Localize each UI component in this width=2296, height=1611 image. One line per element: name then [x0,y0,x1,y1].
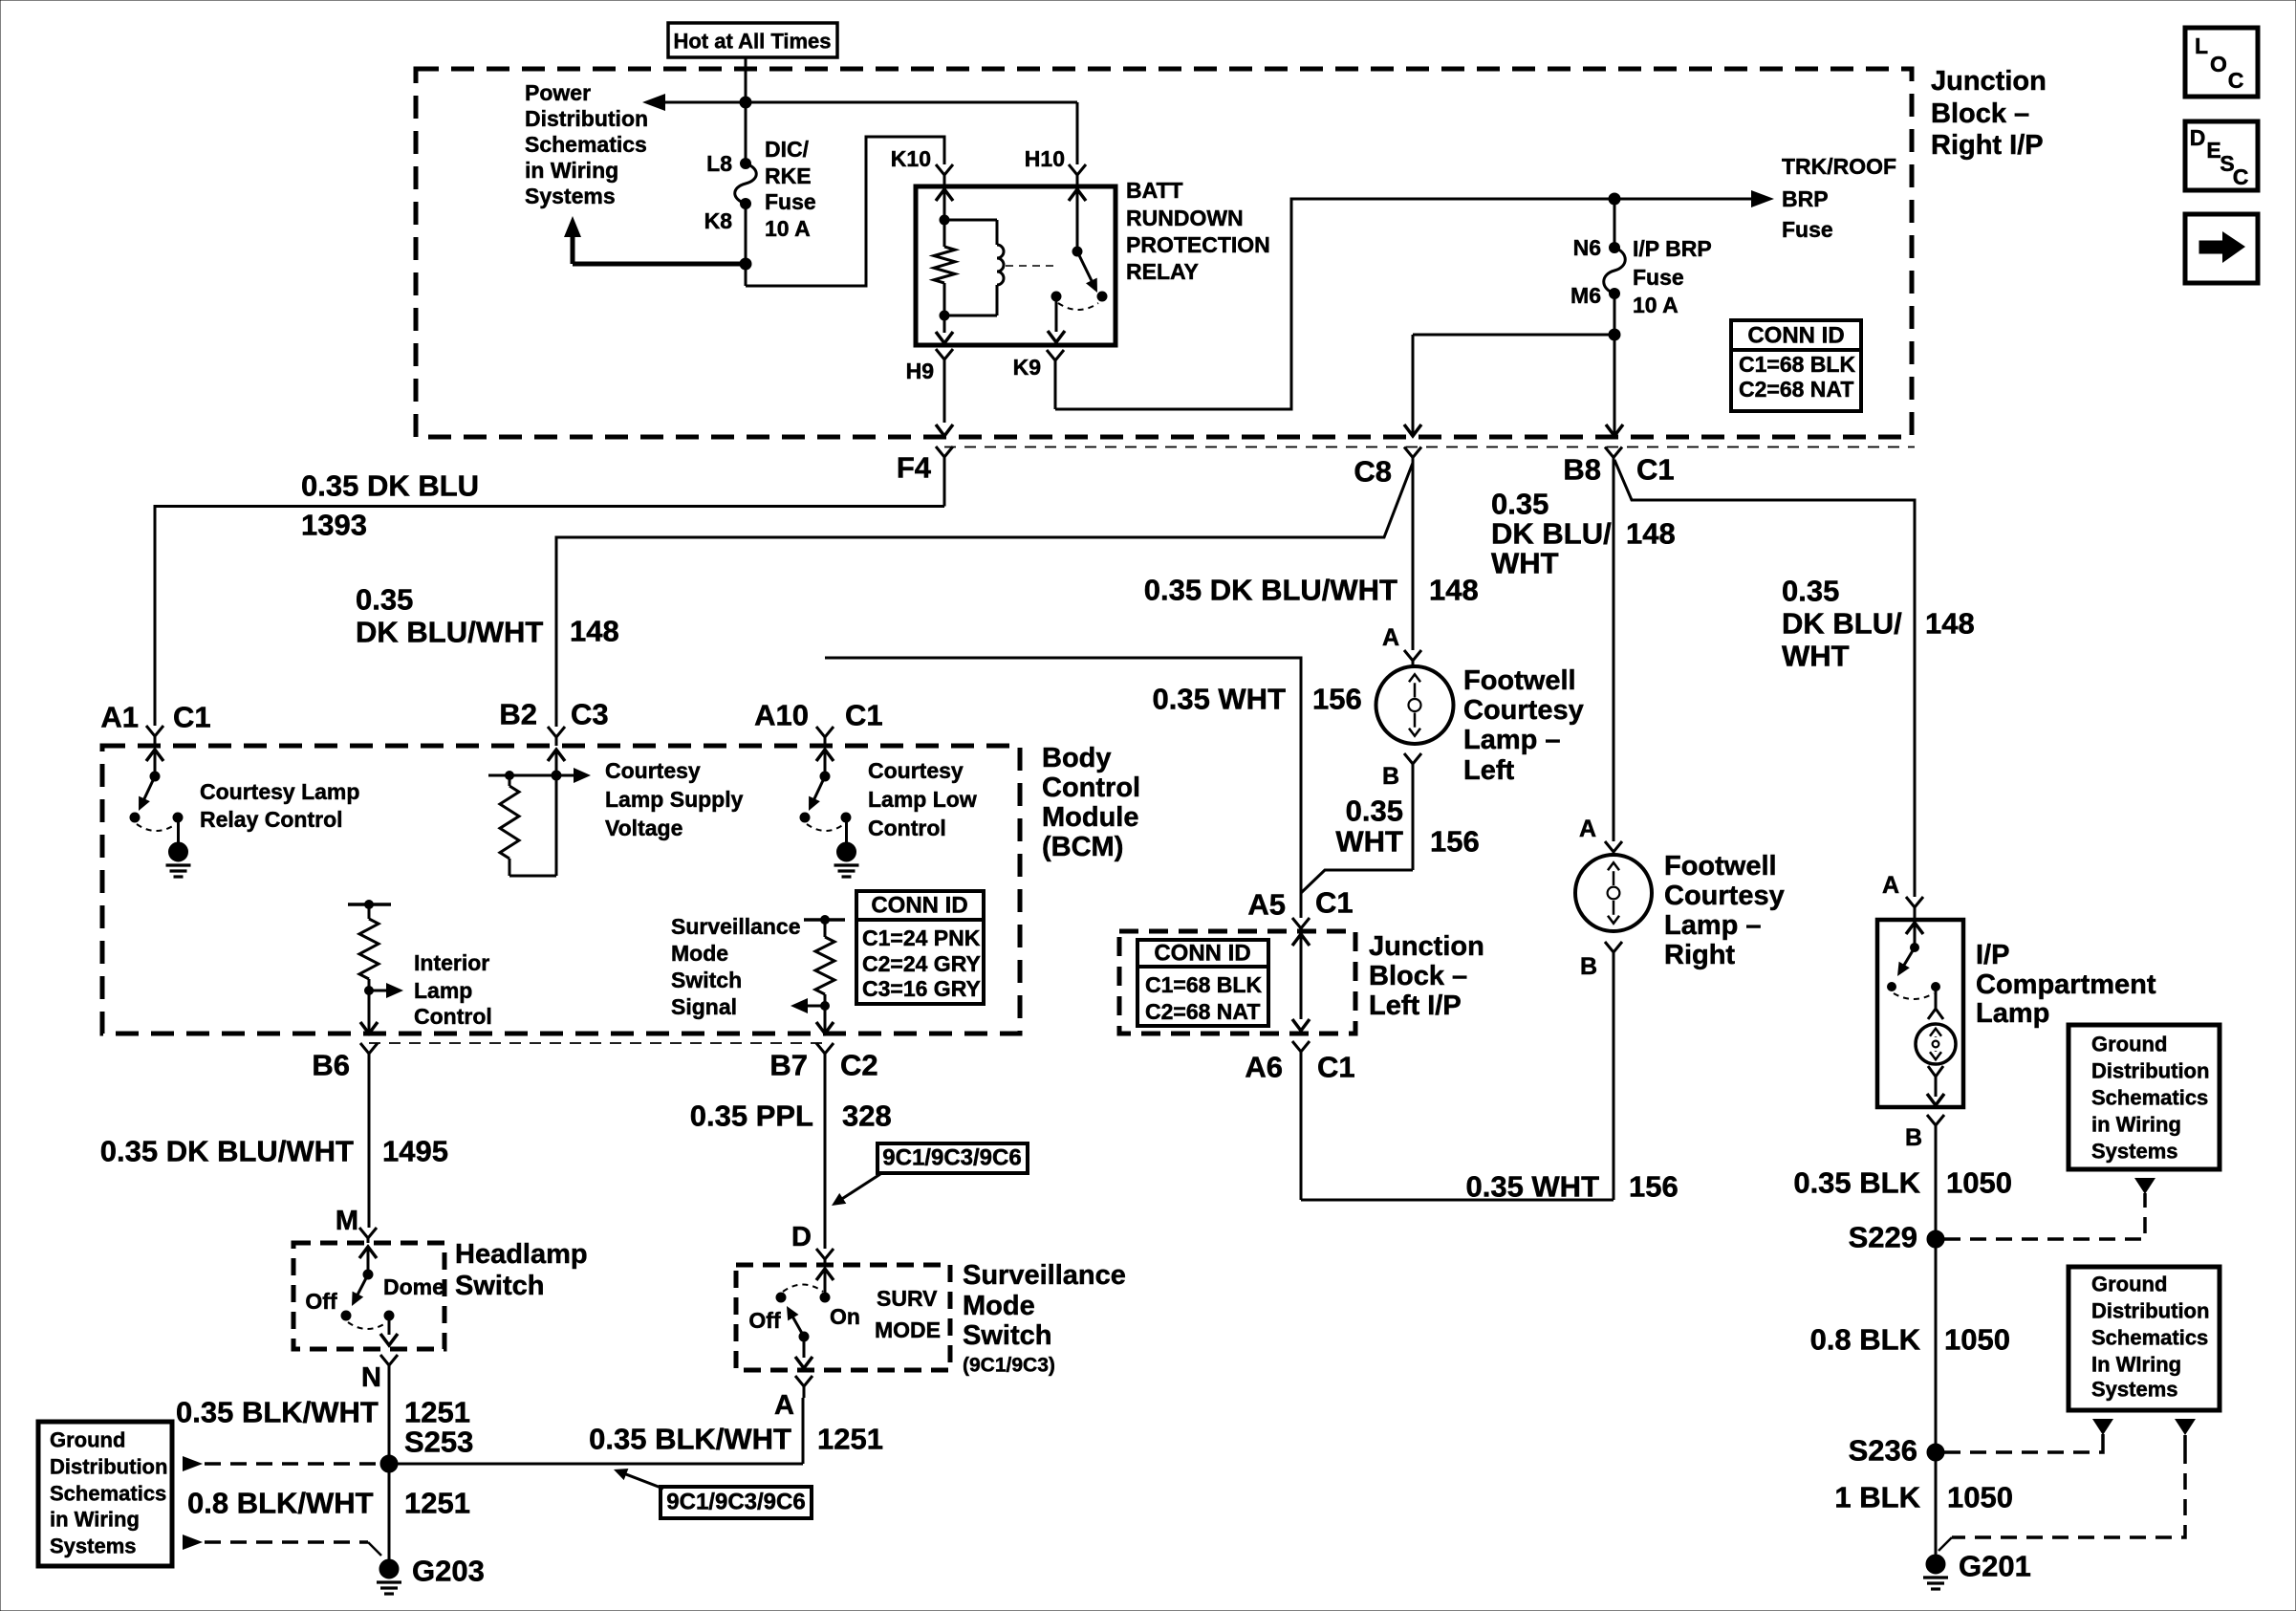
node: I/P switch contact left [1888,983,1896,991]
svg-text:0.35 DK BLU/WHT: 0.35 DK BLU/WHT [1144,574,1397,607]
svg-text:DK BLU/: DK BLU/ [1782,607,1902,641]
ground inside BCM at A1 [177,817,180,852]
svg-text:Headlamp: Headlamp [455,1239,588,1270]
surveillance dashed arc [783,1285,823,1293]
svg-text:Lamp –: Lamp – [1463,725,1561,755]
relay switch output arrow to K9 [1055,296,1058,332]
svg-text:DK BLU/WHT: DK BLU/WHT [356,616,543,649]
svg-text:Surveillance: Surveillance [671,914,801,939]
node: relay switch open contact [1097,292,1107,301]
svg-text:MODE: MODE [875,1317,941,1342]
svg-text:0.35 WHT: 0.35 WHT [1152,683,1286,716]
I/P lamp switch input arrow [1906,923,1923,934]
svg-text:B7: B7 [769,1049,808,1082]
svg-text:C2=68 NAT: C2=68 NAT [1145,999,1260,1024]
connector chevron N [380,1355,398,1365]
svg-text:Ground: Ground [2091,1273,2167,1296]
dashed lead S229 to ground distribution [1944,1207,2145,1239]
connector chevron H9 [936,349,953,359]
svg-text:10 A: 10 A [765,216,811,241]
svg-text:C1: C1 [845,699,883,732]
svg-text:Systems: Systems [50,1535,137,1558]
wire: M6 down to B8 [1614,294,1616,433]
junction block left internal path [1292,934,1310,946]
connector face dashed line [944,446,1915,448]
svg-text:A: A [774,1390,794,1421]
svg-text:WHT: WHT [1782,640,1850,673]
splice S253 [380,1455,398,1472]
relay switch arm [1077,251,1094,288]
node: headlamp switch Off contact [341,1311,351,1320]
svg-text:Fuse: Fuse [1782,217,1833,242]
svg-text:S236: S236 [1849,1434,1917,1468]
svg-text:DIC/: DIC/ [765,137,810,162]
wire 1251: S253 to surveillance switch A [389,1463,803,1466]
svg-text:C1=68 BLK: C1=68 BLK [1145,972,1262,997]
svg-text:(9C1/9C3): (9C1/9C3) [963,1355,1055,1377]
svg-text:Footwell: Footwell [1664,851,1777,882]
node: I/P BRP fuse tap [1609,193,1620,205]
connector chevron A1 [146,726,163,736]
fuse F2 I/P BRP Fuse 10A [1614,199,1616,248]
connector chevron A6 [1292,1041,1310,1052]
svg-text:Surveillance: Surveillance [963,1260,1126,1291]
svg-text:Right I/P: Right I/P [1931,130,2044,161]
connector chevron H10 [1069,164,1086,175]
exit arrow at C8 [1404,425,1421,436]
annotation arrow to wire 1251 [619,1471,663,1489]
svg-text:0.35: 0.35 [1782,575,1839,608]
connector chevron B2 [548,727,565,737]
svg-text:A: A [1382,624,1399,651]
svg-text:C: C [2228,68,2244,93]
svg-text:Switch: Switch [963,1320,1051,1351]
connector chevron I/P lamp A [1906,897,1923,907]
node: surveillance Off contact [776,1293,786,1302]
lamp E3 I/P compartment bulb [1916,1024,1956,1064]
svg-text:Block –: Block – [1369,961,1467,991]
surveillance arrow left [808,1005,825,1008]
BCM A1 switch arm [141,776,155,806]
I/P internal connector [1935,987,1938,1009]
connector chevron K10 [936,164,953,175]
svg-text:A: A [1882,872,1899,899]
connector chevron C8 [1404,447,1421,458]
svg-text:9C1/9C3/9C6: 9C1/9C3/9C6 [666,1490,805,1515]
svg-text:0.35: 0.35 [356,583,413,617]
svg-text:0.35 DK BLU/WHT: 0.35 DK BLU/WHT [100,1135,354,1168]
svg-text:Footwell: Footwell [1463,665,1576,696]
connector chevron lamp left B [1404,753,1421,764]
svg-text:Hot at All Times: Hot at All Times [673,30,831,54]
node: B2 resistor top [506,772,514,780]
node: A1 switch pivot [150,772,160,781]
node: hot feed junction [740,97,751,108]
relay coil output arrow to H9 [943,316,946,333]
svg-text:I/P: I/P [1976,940,2009,970]
ground distribution box 2 [2069,1267,2220,1410]
svg-text:SURV: SURV [877,1286,938,1311]
svg-text:0.35 BLK/WHT: 0.35 BLK/WHT [589,1423,791,1456]
svg-text:Schematics: Schematics [2091,1326,2208,1350]
I/P bulb output connector [1928,1066,1943,1077]
svg-text:D: D [2190,125,2206,150]
wire 156: A10 to junction block A5 [825,658,1301,918]
svg-text:BRP: BRP [1782,186,1829,211]
node: surveillance switch pivot [799,1332,809,1341]
svg-text:Voltage: Voltage [605,816,682,840]
svg-text:C1=24 PNK: C1=24 PNK [862,925,981,950]
svg-text:B: B [1905,1124,1922,1151]
svg-text:0.35 BLK/WHT: 0.35 BLK/WHT [176,1396,379,1429]
svg-text:K8: K8 [704,208,733,233]
svg-text:Signal: Signal [671,994,737,1019]
svg-text:Courtesy: Courtesy [868,758,964,783]
svg-text:1251: 1251 [817,1423,883,1456]
fuse F1 DIC/RKE Fuse 10A [735,163,757,204]
svg-text:Schematics: Schematics [50,1482,166,1506]
svg-text:A: A [1579,816,1596,842]
connector chevron B6 [360,1043,378,1054]
svg-text:148: 148 [570,615,619,648]
svg-text:(BCM): (BCM) [1042,832,1123,862]
svg-text:1050: 1050 [1946,1166,2012,1200]
node: B2 internal junction [552,771,561,780]
svg-text:0.35 WHT: 0.35 WHT [1465,1170,1599,1204]
node: headlamp switch pivot [363,1270,373,1279]
svg-text:Body: Body [1042,743,1112,773]
svg-text:B: B [1580,953,1597,980]
svg-text:On: On [830,1304,860,1329]
connector chevron B8 [1605,447,1622,458]
svg-text:Lamp Supply: Lamp Supply [605,787,744,812]
BCM B2 supply arrow [548,750,565,761]
headlamp switch output arrow [388,1316,391,1335]
exit arrow at F4 [936,425,953,436]
lamp E2 footwell courtesy lamp right [1575,855,1652,931]
svg-text:Switch: Switch [455,1271,544,1301]
svg-text:Right: Right [1664,940,1735,970]
wire: branch to C8 [1413,334,1614,337]
svg-text:9C1/9C3/9C6: 9C1/9C3/9C6 [882,1145,1021,1171]
connector chevron K9 [1047,350,1064,360]
svg-text:B8: B8 [1563,453,1601,487]
svg-text:K10: K10 [891,146,931,171]
svg-text:WHT: WHT [1491,547,1559,580]
svg-text:in Wiring: in Wiring [525,158,618,183]
wire 148: C8 to BCM B2 [556,463,1413,727]
ground G201 [1926,1555,1945,1574]
wire 156: A6 to lamp right B [1301,1199,1614,1202]
svg-text:Interior: Interior [414,950,489,975]
interior lamp control arrow right [369,990,386,992]
svg-text:Switch: Switch [671,968,742,992]
svg-text:C2: C2 [840,1049,878,1082]
headlamp switch dashed box [293,1243,444,1349]
legend box LOC [2185,28,2258,97]
svg-text:Junction: Junction [1931,66,2047,97]
dashed link coil to switch [1006,265,1053,267]
legend box arrow [2185,214,2258,283]
conn id table - right junction block [1731,320,1861,411]
exit arrow B6 [360,1022,378,1034]
wire: K8 down to exit junction [745,204,747,286]
I/P switch dashed arc [1894,993,1934,999]
svg-text:0.35: 0.35 [1346,795,1403,828]
svg-text:148: 148 [1429,574,1479,607]
surveillance switch output arrow [803,1337,806,1358]
wire 156: lamp left B to A5 [1301,870,1413,893]
node: I/P switch contact right [1932,983,1940,991]
svg-text:TRK/ROOF: TRK/ROOF [1782,154,1896,179]
svg-text:M: M [336,1206,358,1236]
svg-text:C: C [2233,164,2249,189]
BCM interior lamp control resistor [348,903,391,906]
connector chevron lamp right A [1605,841,1622,852]
dashed lead left to S253 [183,1456,203,1471]
relay switch dashed travel arc [1058,303,1098,310]
svg-text:Control: Control [868,816,946,840]
BCM A10 driver arrow [816,750,834,761]
BCM surveillance resistor [804,918,845,922]
svg-text:C3: C3 [571,698,609,731]
svg-text:1495: 1495 [382,1135,448,1168]
svg-text:B: B [1382,763,1399,790]
svg-text:C1: C1 [1317,1051,1355,1084]
svg-text:Schematics: Schematics [525,132,647,157]
I/P compartment lamp box [1877,920,1963,1107]
svg-text:C2=68 NAT: C2=68 NAT [1739,377,1853,402]
svg-text:0.35 BLK: 0.35 BLK [1793,1166,1920,1200]
BCM B2 resistor [509,775,511,786]
annotation box 9C1/9C3/9C6 upper [877,1143,1028,1173]
svg-text:CONN ID: CONN ID [1154,941,1250,967]
svg-text:PROTECTION: PROTECTION [1126,232,1270,257]
node: A10 switch pivot [820,772,830,781]
svg-text:Relay Control: Relay Control [200,807,343,832]
svg-text:A10: A10 [754,699,809,732]
svg-text:CONN ID: CONN ID [1747,323,1844,349]
svg-text:C1: C1 [1315,886,1354,920]
wire: thick exit to power distribution schematics [573,262,746,267]
node: headlamp switch Dome contact [384,1311,394,1320]
junction block - left I/P dashed outline [1119,931,1355,1034]
node: A10 switch contact left [800,813,810,822]
svg-text:Off: Off [305,1289,337,1314]
svg-text:B2: B2 [499,698,537,731]
I/P switch arm [1900,947,1915,971]
connector chevron A surveillance [795,1376,812,1386]
conn id table - BCM [856,891,984,1004]
svg-text:Lamp –: Lamp – [1664,910,1762,941]
svg-text:B6: B6 [312,1049,350,1082]
svg-text:A1: A1 [100,701,139,734]
connector chevron A5 [1292,918,1310,928]
node: I/P switch pivot [1911,944,1919,952]
surveillance switch input arrow [816,1269,834,1280]
connector chevron A10 [816,727,834,737]
exit arrow B7 [816,1022,834,1034]
svg-text:0.35 PPL: 0.35 PPL [690,1099,813,1133]
svg-text:H10: H10 [1025,146,1065,171]
connector chevron lamp left A [1404,650,1421,661]
annotation box 9C1/9C3/9C6 lower [661,1487,812,1518]
conn id table - left junction block [1137,940,1268,1026]
headlamp switch arm [355,1274,368,1301]
svg-text:Left: Left [1463,755,1515,786]
svg-text:Mode: Mode [963,1291,1035,1321]
svg-text:Courtesy Lamp: Courtesy Lamp [200,779,359,804]
svg-text:L: L [2195,33,2208,58]
ground distribution box left [38,1422,172,1566]
node: A10 switch contact right [841,813,851,822]
svg-text:F4: F4 [897,451,932,485]
svg-text:G203: G203 [412,1555,485,1588]
svg-text:CONN ID: CONN ID [871,893,967,919]
svg-text:Courtesy: Courtesy [1463,695,1584,726]
B2 output arrow right [556,774,574,777]
svg-text:D: D [791,1222,812,1252]
wire: feed to H10 with left exit arrow [663,101,1077,104]
svg-text:Ground: Ground [50,1428,125,1452]
svg-text:In WIring: In WIring [2091,1353,2181,1377]
lamp E1 footwell courtesy lamp left [1376,666,1454,744]
B2 internal stub [488,774,556,777]
relay resistor element [943,220,946,247]
svg-text:RKE: RKE [765,163,812,188]
node: surveillance signal junction [821,1002,830,1011]
svg-text:1050: 1050 [1944,1323,2010,1357]
svg-text:Compartment: Compartment [1976,969,2156,1000]
dashed lead S236 to ground distribution [1944,1448,2103,1452]
svg-text:Junction: Junction [1369,931,1484,962]
svg-text:G201: G201 [1959,1550,2031,1583]
surveillance switch arm [790,1311,804,1337]
svg-text:C2=24 GRY: C2=24 GRY [862,951,981,976]
svg-text:Control: Control [414,1004,492,1029]
dashed lead left to G203 wire [183,1535,203,1550]
connector chevron B7 [816,1043,834,1054]
A1 switch dashed arc [137,824,176,831]
svg-text:Systems: Systems [2091,1140,2178,1164]
svg-text:Control: Control [1042,773,1140,803]
svg-text:C8: C8 [1354,455,1392,489]
svg-text:C1=68 BLK: C1=68 BLK [1739,352,1855,377]
node: surveillance On contact [820,1293,830,1302]
splice S229 [1927,1230,1944,1248]
svg-text:0.8 BLK/WHT: 0.8 BLK/WHT [187,1487,374,1520]
connector chevron D [816,1249,834,1259]
svg-text:O: O [2210,52,2227,76]
svg-text:Module: Module [1042,802,1139,833]
svg-text:RELAY: RELAY [1126,259,1199,284]
svg-text:156: 156 [1430,825,1480,859]
svg-text:BATT: BATT [1126,178,1183,203]
splice S236 [1927,1444,1944,1461]
connector chevron M [359,1228,377,1238]
label: Hot at All Times box [668,23,837,57]
wire: S253 down to G203 [388,1464,391,1560]
svg-text:156: 156 [1629,1170,1679,1204]
svg-text:N: N [361,1362,381,1393]
node: interior lamp control junction [365,987,374,995]
svg-text:Block –: Block – [1931,98,2029,129]
ground inside BCM at A10 [845,817,848,852]
svg-text:0.35: 0.35 [1491,488,1549,521]
relay switch common from H10 [1069,189,1086,201]
node: relay switch K9 contact [1051,292,1061,301]
node: relay coil top [940,215,949,225]
svg-text:148: 148 [1925,607,1975,641]
connector chevron lamp right B [1605,942,1622,952]
svg-text:1050: 1050 [1947,1481,2013,1514]
wire: H10 drop into relay [1076,102,1079,164]
svg-text:Distribution: Distribution [2091,1299,2209,1323]
svg-text:S253: S253 [404,1426,473,1459]
wire 148: C1 to I/P lamp [1614,460,1915,897]
svg-text:Lamp: Lamp [414,978,472,1003]
node: power distribution tap [740,258,751,270]
wire 1393: F4 to BCM A1 [155,507,944,727]
svg-text:in Wiring: in Wiring [50,1508,140,1532]
svg-text:Ground: Ground [2091,1033,2167,1056]
headlamp switch input arrow [359,1247,377,1258]
svg-text:156: 156 [1312,683,1362,716]
surveillance mode switch dashed box [736,1265,950,1370]
legend box DESC [2185,121,2258,190]
ground distribution box 1 [2069,1025,2220,1169]
svg-text:1251: 1251 [404,1487,470,1520]
svg-text:Dome: Dome [383,1274,444,1299]
svg-text:Systems: Systems [2091,1378,2178,1402]
svg-text:C1: C1 [173,701,211,734]
svg-text:1 BLK: 1 BLK [1834,1481,1920,1514]
svg-text:L8: L8 [706,151,732,176]
BCM A1 driver arrow [146,750,163,761]
svg-text:S229: S229 [1849,1221,1917,1254]
svg-text:Lamp: Lamp [1976,998,2049,1029]
svg-text:Distribution: Distribution [525,106,648,131]
svg-text:1393: 1393 [301,509,367,542]
svg-text:H9: H9 [906,359,934,383]
exit arrow at B8 [1606,425,1623,436]
svg-text:Systems: Systems [525,184,616,208]
node: A1 switch contact left [130,813,140,822]
annotation arrow to wire 328 [836,1174,880,1203]
svg-text:0.8 BLK: 0.8 BLK [1810,1323,1921,1357]
svg-text:Left I/P: Left I/P [1369,991,1462,1021]
svg-text:C3=16 GRY: C3=16 GRY [862,976,981,1001]
relay coil input arrow from K10 [936,189,953,201]
wire: hot feed down from Hot at All Times [745,57,747,163]
svg-text:0.35 DK BLU: 0.35 DK BLU [301,469,479,503]
svg-text:I/P BRP: I/P BRP [1633,236,1712,261]
BCM A10 switch arm [812,776,825,806]
wire: K8 to relay K10 [746,137,944,286]
ground G203 [379,1559,399,1578]
node: C8 branch tap [1609,329,1620,340]
svg-text:A5: A5 [1247,888,1286,922]
svg-text:Fuse: Fuse [765,189,816,214]
svg-text:148: 148 [1626,517,1676,551]
connector chevron I/P lamp B [1927,1115,1944,1125]
svg-text:1251: 1251 [404,1396,470,1429]
svg-text:Courtesy: Courtesy [1664,881,1785,911]
svg-text:Distribution: Distribution [2091,1059,2209,1083]
BCM dashed outline [102,746,1020,1034]
wire: K9 to TRK/ROOF BRP feed [1055,199,1753,409]
arrow: to TRK/ROOF BRP Fuse [1751,190,1774,207]
